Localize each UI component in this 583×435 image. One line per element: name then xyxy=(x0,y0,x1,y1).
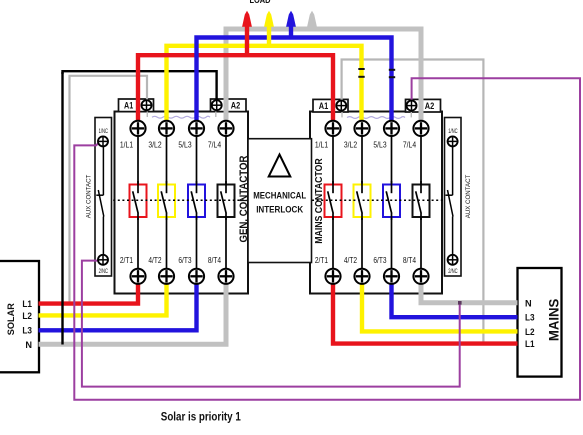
pole labels K2 bottom xyxy=(315,255,416,265)
wire L3 phase top (blue) xyxy=(197,38,392,122)
svg-text:MECHANICAL: MECHANICAL xyxy=(253,191,306,202)
wire pole 7 K1 internal xyxy=(225,136,227,185)
contact pole 3/L2-4/T2 K1 xyxy=(158,181,175,220)
svg-text:L3: L3 xyxy=(525,312,535,322)
svg-text:LOAD: LOAD xyxy=(250,0,271,5)
svg-text:7/L4: 7/L4 xyxy=(403,139,416,149)
terminal A2 K2 xyxy=(407,101,417,111)
wire coil A2 K1 vertical (black) xyxy=(61,72,63,345)
terminal 1/L1 K2 xyxy=(325,121,340,136)
mechanical interlock box xyxy=(248,139,312,263)
terminal 4/T2 K2 xyxy=(354,269,369,284)
wire pole 5 K2 internal xyxy=(391,136,393,185)
svg-text:N: N xyxy=(25,340,32,350)
svg-text:8/T4: 8/T4 xyxy=(208,255,221,265)
contact pole 1/L1-2/T1 K1 xyxy=(130,181,147,220)
svg-text:5/L3: 5/L3 xyxy=(178,139,191,149)
contact pole 5/L3-6/T3 K1 xyxy=(188,181,205,220)
wire N from SOLAR to K1 8/T4 (gray) xyxy=(39,283,227,344)
coil terminal box A1 (K2) xyxy=(313,99,348,112)
terminal 2/T1 K2 xyxy=(325,269,340,284)
arrow L2 yellow (to LOAD) xyxy=(264,11,274,46)
aux switch symbol (K1) xyxy=(96,146,104,255)
svg-text:AUX CONTACT: AUX CONTACT xyxy=(86,175,93,219)
terminal 2/T1 K1 xyxy=(130,269,145,284)
wire MAINS L1 to K2 2/T1 (red) xyxy=(333,283,518,343)
terminal 1/NC K1 aux xyxy=(98,136,108,146)
svg-text:2/NC: 2/NC xyxy=(448,268,458,275)
svg-text:L1: L1 xyxy=(22,299,32,309)
terminal 1/L1 K1 xyxy=(130,121,145,136)
contactor K2 MAINS body xyxy=(310,112,442,294)
svg-text:1/NC: 1/NC xyxy=(99,128,109,135)
wire SOLAR L2 to K1 4/T2 (yellow) xyxy=(39,283,167,315)
terminal 4/T2 K1 xyxy=(159,269,174,284)
interlock triangle symbol xyxy=(269,155,291,177)
svg-text:2/T1: 2/T1 xyxy=(315,255,328,265)
coil terminal box A2 (K2) xyxy=(406,99,441,112)
terminal 7/L4 K1 xyxy=(218,121,233,136)
arrow L1 red (to LOAD) xyxy=(242,11,252,55)
wire pole 5 K1 internal xyxy=(196,136,198,185)
terminal 6/T3 K1 xyxy=(189,269,204,284)
wire pole 7 K2 internal xyxy=(420,136,422,185)
svg-text:5/L3: 5/L3 xyxy=(373,139,386,149)
aux contact box (K1) xyxy=(95,118,112,277)
wire coil A2 K2 to aux 1/NC K1 (purple) xyxy=(74,78,580,400)
wire coil A2 K1 from SOLAR N (black) horizontal xyxy=(63,71,217,101)
coil of K1 xyxy=(147,112,216,119)
aux contact box (K2) xyxy=(445,118,462,277)
svg-text:INTERLOCK: INTERLOCK xyxy=(256,204,303,215)
svg-text:6/T3: 6/T3 xyxy=(178,255,191,265)
source box MAINS xyxy=(518,268,562,377)
svg-text:3/L2: 3/L2 xyxy=(148,139,161,149)
wire pole 3 K1 internal xyxy=(166,136,168,185)
terminal 2/NC K1 aux xyxy=(98,255,108,265)
svg-text:A2: A2 xyxy=(425,101,435,111)
svg-text:1/L1: 1/L1 xyxy=(120,139,133,149)
terminal 8/T4 K1 xyxy=(218,269,233,284)
arrow N gray (to LOAD) xyxy=(307,11,317,29)
pole labels K1 bottom xyxy=(120,255,221,265)
wire MAINS L2 to K2 4/T2 (yellow) xyxy=(362,283,518,331)
label MECHANICAL INTERLOCK xyxy=(253,191,306,216)
svg-text:MAINS: MAINS xyxy=(545,299,561,342)
terminal A1 K2 xyxy=(336,101,346,111)
wire L1 phase top (red) xyxy=(138,55,333,121)
wire N to LOAD (gray) xyxy=(226,29,421,122)
svg-text:N: N xyxy=(525,298,532,308)
interlock linkage dotted line K1 xyxy=(104,199,247,201)
terminal 8/T4 K2 xyxy=(413,269,428,284)
wire pole 1 K2 internal xyxy=(332,136,334,185)
svg-text:3/L2: 3/L2 xyxy=(344,139,357,149)
svg-text:2/NC: 2/NC xyxy=(99,268,109,275)
wire SOLAR L3 to K1 6/T3 (blue) xyxy=(39,283,197,330)
wire SOLAR L1 to K1 2/T1 (red) xyxy=(39,283,139,303)
pole labels K1 top xyxy=(120,139,221,149)
wire coil A1 K1 from SOLAR L1 (gray) xyxy=(70,76,148,304)
terminal 3/L2 K1 xyxy=(159,121,174,136)
terminal 2/NC K2 aux xyxy=(448,255,458,265)
wire L2 phase top (yellow) xyxy=(167,46,362,122)
aux switch symbol (K2) xyxy=(446,146,454,255)
contact pole 3/L2-4/T2 K2 xyxy=(354,181,371,220)
svg-text:6/T3: 6/T3 xyxy=(373,255,386,265)
terminal 6/T3 K2 xyxy=(384,269,399,284)
contact pole 5/L3-6/T3 K2 xyxy=(383,181,400,220)
svg-text:A2: A2 xyxy=(231,101,241,111)
interlock linkage dotted line K2 xyxy=(312,199,451,201)
svg-text:A1: A1 xyxy=(319,101,329,111)
arrow L3 blue (to LOAD) xyxy=(286,11,296,38)
contact pole 7/L4-8/T4 K1 xyxy=(218,181,235,220)
terminal 5/L3 K2 xyxy=(384,121,399,136)
terminal 1/NC K2 aux xyxy=(448,136,458,146)
wire MAINS L3 to K2 6/T3 (blue) xyxy=(392,283,518,317)
svg-text:SOLAR: SOLAR xyxy=(6,303,16,336)
contact pole 1/L1-2/T1 K2 xyxy=(325,181,342,220)
coil of K2 xyxy=(342,112,411,118)
wire aux 2/NC K1 to MAINS N (purple) xyxy=(82,261,460,387)
svg-text:2/T1: 2/T1 xyxy=(120,255,133,265)
terminal A2 K1 xyxy=(212,100,222,110)
svg-text:1/L1: 1/L1 xyxy=(315,139,328,149)
svg-text:GEN. CONTACTOR: GEN. CONTACTOR xyxy=(238,155,250,242)
crossover marks xyxy=(358,68,395,78)
svg-text:L3: L3 xyxy=(22,326,32,336)
svg-text:A1: A1 xyxy=(124,101,133,111)
wire pole 3 K2 internal xyxy=(361,136,363,185)
svg-text:Solar is priority 1: Solar is priority 1 xyxy=(161,409,241,423)
svg-text:4/T2: 4/T2 xyxy=(148,255,161,265)
contact pole 7/L4-8/T4 K2 xyxy=(413,181,430,220)
svg-text:L1: L1 xyxy=(525,339,535,349)
terminal A1 K1 xyxy=(142,100,152,110)
terminal 3/L2 K2 xyxy=(354,121,369,136)
terminal 7/L4 K2 xyxy=(413,121,428,136)
coil terminal box A1 (K1) xyxy=(119,99,154,112)
svg-text:L2: L2 xyxy=(525,327,535,337)
wire N from MAINS to K2 8/T4 (gray) xyxy=(421,283,518,303)
svg-text:AUX CONTACT: AUX CONTACT xyxy=(465,175,472,219)
svg-text:L2: L2 xyxy=(22,311,32,321)
wire coil A1 K2 from MAINS L1 (gray) xyxy=(342,60,484,344)
svg-text:8/T4: 8/T4 xyxy=(403,255,416,265)
junction purple to N xyxy=(458,301,462,305)
svg-text:4/T2: 4/T2 xyxy=(344,255,357,265)
coil terminal box A2 (K1) xyxy=(211,99,247,112)
pole labels K2 top xyxy=(315,139,416,149)
terminal 5/L3 K1 xyxy=(189,121,204,136)
source box SOLAR xyxy=(0,261,39,372)
svg-text:MAINS CONTACTOR: MAINS CONTACTOR xyxy=(314,158,325,244)
svg-text:7/L4: 7/L4 xyxy=(208,139,221,149)
wire pole 1 K1 internal xyxy=(137,136,139,185)
contactor K1 GEN body xyxy=(115,112,249,294)
svg-text:1/NC: 1/NC xyxy=(448,128,458,135)
